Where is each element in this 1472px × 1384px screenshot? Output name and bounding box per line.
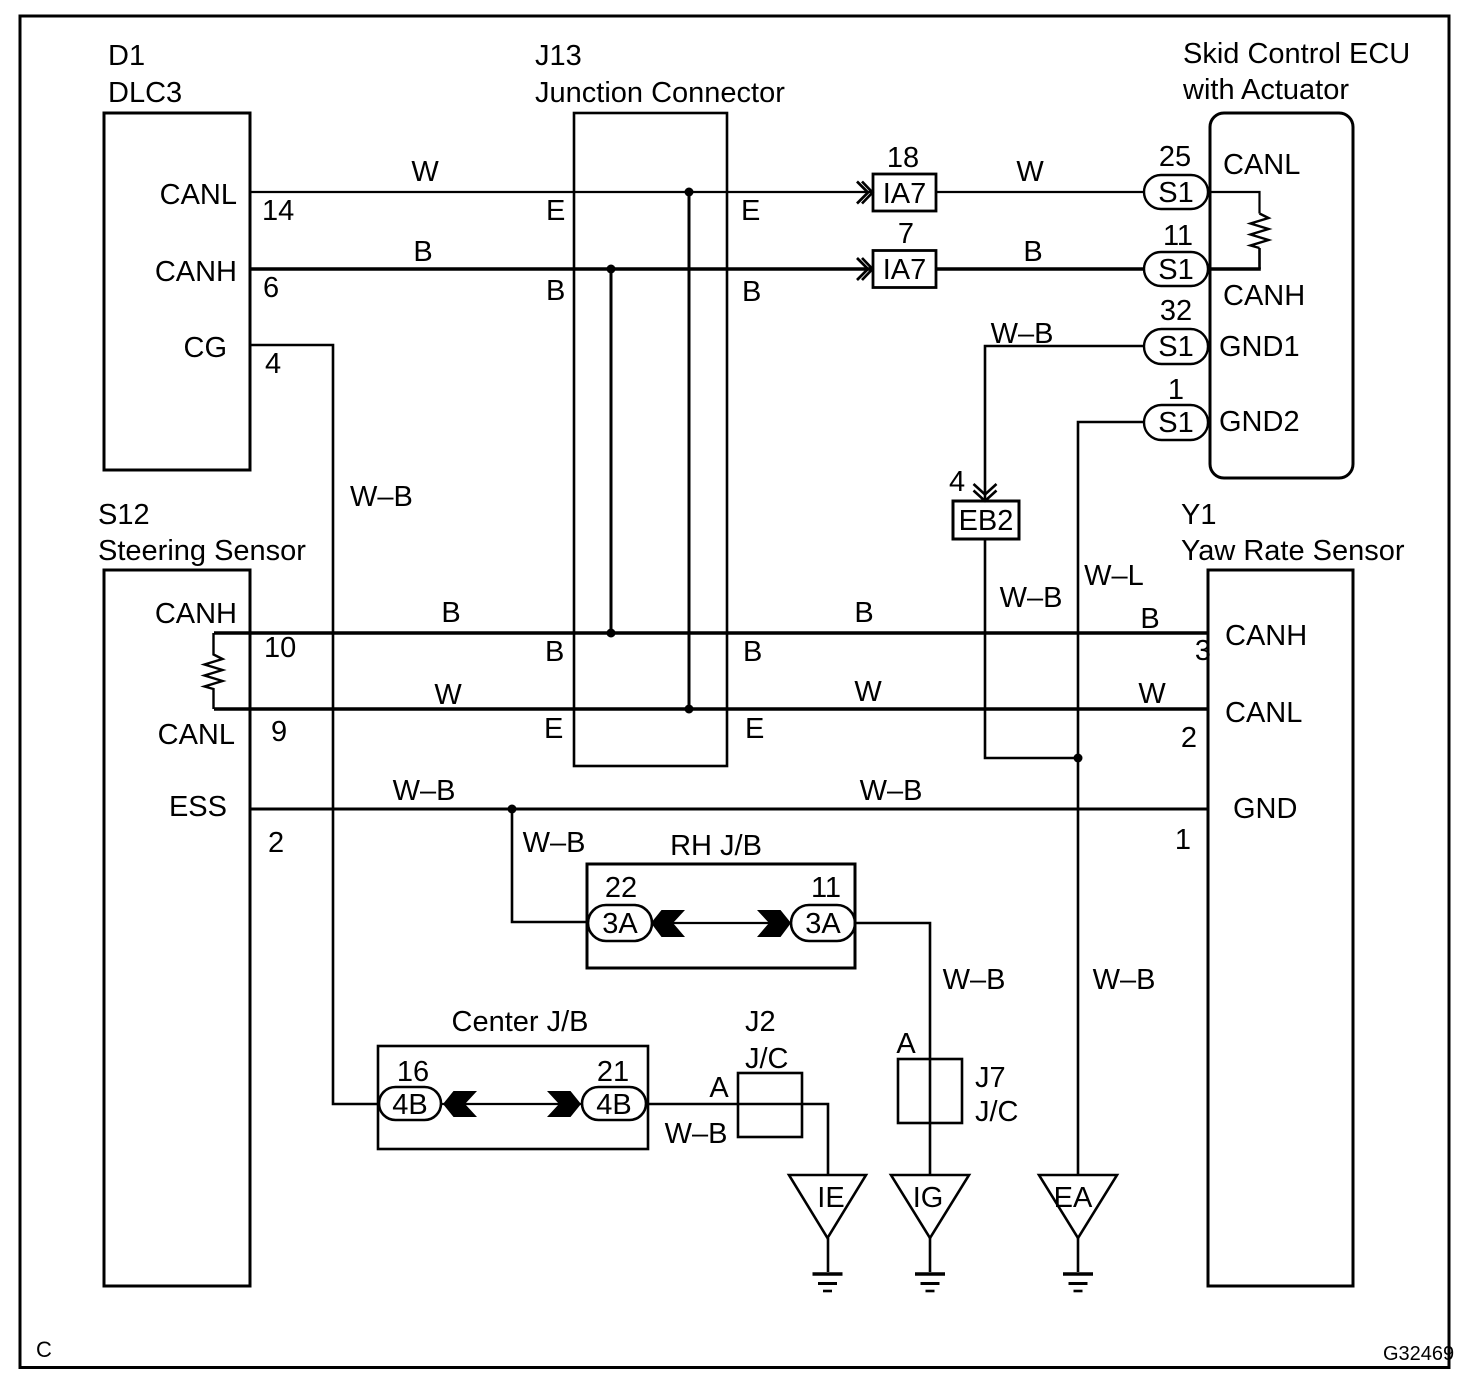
svg-text:Steering Sensor: Steering Sensor bbox=[98, 535, 306, 567]
svg-text:CANH: CANH bbox=[1225, 620, 1307, 652]
svg-text:4: 4 bbox=[949, 466, 965, 498]
svg-text:EA: EA bbox=[1054, 1182, 1093, 1214]
svg-text:W: W bbox=[411, 156, 439, 188]
svg-text:W: W bbox=[434, 679, 462, 711]
svg-text:GND1: GND1 bbox=[1219, 331, 1300, 363]
svg-text:21: 21 bbox=[597, 1056, 629, 1088]
svg-text:RH J/B: RH J/B bbox=[670, 830, 762, 862]
svg-text:3: 3 bbox=[1195, 635, 1211, 667]
svg-text:CANL: CANL bbox=[1223, 149, 1300, 181]
svg-text:3A: 3A bbox=[805, 908, 841, 940]
svg-text:B: B bbox=[742, 276, 761, 308]
svg-text:S1: S1 bbox=[1158, 331, 1193, 363]
svg-text:S1: S1 bbox=[1158, 177, 1193, 209]
svg-text:1: 1 bbox=[1168, 374, 1184, 406]
svg-text:S1: S1 bbox=[1158, 254, 1193, 286]
svg-text:18: 18 bbox=[887, 142, 919, 174]
svg-text:Junction Connector: Junction Connector bbox=[535, 77, 785, 109]
svg-text:IA7: IA7 bbox=[883, 254, 927, 286]
svg-text:W–L: W–L bbox=[1084, 560, 1144, 592]
svg-text:11: 11 bbox=[811, 872, 841, 904]
svg-text:GND: GND bbox=[1233, 793, 1297, 825]
svg-text:11: 11 bbox=[1163, 220, 1193, 252]
svg-text:2: 2 bbox=[268, 827, 284, 859]
svg-text:ESS: ESS bbox=[169, 791, 227, 823]
svg-text:CANH: CANH bbox=[155, 256, 237, 288]
svg-text:CANL: CANL bbox=[160, 179, 237, 211]
svg-text:W–B: W–B bbox=[350, 481, 413, 513]
svg-text:D1: D1 bbox=[108, 40, 145, 72]
svg-text:E: E bbox=[741, 195, 760, 227]
svg-text:16: 16 bbox=[397, 1056, 429, 1088]
svg-text:B: B bbox=[1140, 603, 1159, 635]
svg-text:W–B: W–B bbox=[1000, 582, 1063, 614]
svg-text:W: W bbox=[1016, 156, 1044, 188]
svg-text:A: A bbox=[709, 1072, 729, 1104]
svg-text:J2: J2 bbox=[745, 1006, 776, 1038]
svg-text:2: 2 bbox=[1181, 722, 1197, 754]
svg-text:32: 32 bbox=[1160, 295, 1192, 327]
svg-text:W–B: W–B bbox=[523, 827, 586, 859]
svg-text:DLC3: DLC3 bbox=[108, 77, 182, 109]
svg-text:CANH: CANH bbox=[155, 598, 237, 630]
svg-text:S12: S12 bbox=[98, 499, 150, 531]
svg-text:W–B: W–B bbox=[665, 1118, 728, 1150]
svg-text:C: C bbox=[36, 1337, 52, 1362]
svg-text:J13: J13 bbox=[535, 40, 582, 72]
svg-text:4: 4 bbox=[265, 348, 281, 380]
svg-text:Yaw Rate Sensor: Yaw Rate Sensor bbox=[1181, 535, 1405, 567]
svg-text:J/C: J/C bbox=[745, 1043, 789, 1075]
svg-text:9: 9 bbox=[271, 716, 287, 748]
svg-text:4B: 4B bbox=[596, 1089, 631, 1121]
svg-text:14: 14 bbox=[262, 195, 294, 227]
svg-text:Y1: Y1 bbox=[1181, 499, 1216, 531]
svg-text:Skid Control ECU: Skid Control ECU bbox=[1183, 38, 1410, 70]
svg-text:W: W bbox=[854, 676, 882, 708]
svg-text:B: B bbox=[413, 236, 432, 268]
svg-text:CANL: CANL bbox=[158, 719, 235, 751]
svg-text:B: B bbox=[854, 597, 873, 629]
svg-text:G32469: G32469 bbox=[1383, 1343, 1454, 1365]
svg-text:W: W bbox=[1138, 678, 1166, 710]
svg-text:4B: 4B bbox=[392, 1089, 427, 1121]
svg-text:Center J/B: Center J/B bbox=[452, 1006, 589, 1038]
svg-text:W–B: W–B bbox=[860, 775, 923, 807]
svg-text:22: 22 bbox=[605, 872, 637, 904]
svg-text:6: 6 bbox=[263, 272, 279, 304]
svg-text:IA7: IA7 bbox=[883, 178, 927, 210]
svg-text:CANL: CANL bbox=[1225, 697, 1302, 729]
svg-text:B: B bbox=[1023, 236, 1042, 268]
svg-text:W–B: W–B bbox=[1093, 964, 1156, 996]
svg-text:S1: S1 bbox=[1158, 407, 1193, 439]
svg-text:25: 25 bbox=[1159, 141, 1191, 173]
svg-text:B: B bbox=[546, 275, 565, 307]
svg-text:IG: IG bbox=[913, 1182, 944, 1214]
svg-text:3A: 3A bbox=[602, 908, 638, 940]
svg-text:B: B bbox=[441, 597, 460, 629]
svg-text:J/C: J/C bbox=[975, 1096, 1019, 1128]
svg-text:W–B: W–B bbox=[943, 964, 1006, 996]
svg-text:GND2: GND2 bbox=[1219, 406, 1300, 438]
svg-text:W–B: W–B bbox=[991, 318, 1054, 350]
svg-text:10: 10 bbox=[264, 632, 296, 664]
svg-text:E: E bbox=[546, 195, 565, 227]
svg-text:1: 1 bbox=[1175, 824, 1191, 856]
svg-text:EB2: EB2 bbox=[959, 505, 1014, 537]
svg-text:CG: CG bbox=[184, 332, 228, 364]
svg-text:IE: IE bbox=[817, 1182, 844, 1214]
svg-text:E: E bbox=[745, 713, 764, 745]
svg-text:E: E bbox=[544, 713, 563, 745]
svg-text:B: B bbox=[743, 636, 762, 668]
svg-text:J7: J7 bbox=[975, 1062, 1006, 1094]
svg-text:7: 7 bbox=[898, 218, 914, 250]
svg-text:A: A bbox=[896, 1028, 916, 1060]
svg-text:with Actuator: with Actuator bbox=[1182, 74, 1349, 106]
svg-text:CANH: CANH bbox=[1223, 280, 1305, 312]
svg-text:B: B bbox=[545, 636, 564, 668]
svg-text:W–B: W–B bbox=[393, 775, 456, 807]
